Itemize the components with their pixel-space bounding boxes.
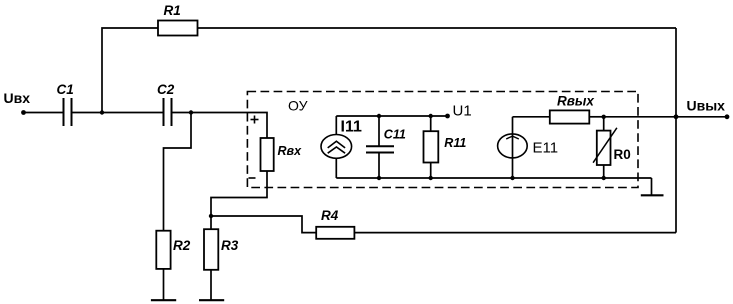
svg-text:Uвх: Uвх	[4, 90, 31, 106]
svg-text:R2: R2	[173, 238, 191, 253]
ground right	[641, 194, 664, 196]
plus terminal mark	[251, 116, 259, 124]
wire R1 to right feedback rail	[198, 27, 677, 29]
wire R3 to ground	[210, 270, 212, 300]
svg-text:R0: R0	[614, 147, 631, 162]
voltage source E11	[498, 134, 528, 158]
svg-text:R1: R1	[164, 3, 181, 18]
svg-text:Uвых: Uвых	[687, 98, 726, 114]
wire R2 to ground	[163, 269, 165, 300]
minus terminal mark	[249, 177, 256, 179]
svg-text:Rвых: Rвых	[557, 94, 594, 109]
current source I11 chevrons	[328, 141, 345, 153]
wire Rvyx to R0 node	[589, 116, 603, 118]
wire node B down jog to R2	[164, 113, 192, 231]
node Uvyx output terminal	[725, 114, 730, 119]
svg-text:C2: C2	[157, 82, 175, 97]
svg-text:I11: I11	[341, 119, 362, 136]
svg-text:Rвх: Rвх	[278, 144, 303, 158]
capacitor C2	[164, 98, 172, 126]
resistor Rvx (input resistance)	[261, 138, 274, 171]
svg-text:R3: R3	[221, 238, 239, 253]
wire node C to R4	[211, 216, 316, 233]
wire C11 top lead	[378, 116, 380, 146]
node C11 bottom junction	[377, 176, 381, 180]
wire R4 to right rail	[354, 232, 676, 234]
resistor R2	[156, 231, 170, 269]
resistor R4	[316, 227, 354, 239]
E11 arrow barbs	[506, 136, 519, 139]
svg-text:C1: C1	[57, 82, 74, 97]
wire E11 vertical through source	[512, 117, 514, 178]
capacitor C1	[64, 98, 72, 126]
wire E11 top to Rvyx	[513, 116, 550, 118]
wire I11 top lead	[335, 116, 337, 135]
node E11 bottom junction	[510, 176, 514, 180]
wire feedback rail down right side	[675, 28, 677, 233]
svg-text:U1: U1	[453, 103, 472, 120]
node R0 top junction	[602, 115, 606, 119]
wire R11 top lead	[430, 116, 432, 131]
op-amp dashed box U1	[247, 92, 638, 188]
svg-text:R11: R11	[444, 136, 466, 150]
wire I11 bottom lead	[335, 158, 337, 178]
wire Rvx bottom to node C	[211, 171, 267, 216]
wire node A to C2	[102, 112, 164, 114]
node output junction with feedback rail	[674, 114, 679, 119]
svg-text:E11: E11	[533, 140, 559, 157]
node C junction	[209, 214, 213, 218]
wire C1 to node A	[72, 112, 103, 114]
wire R11 bottom lead	[430, 163, 432, 179]
resistor R1	[158, 21, 198, 36]
wire input to C1	[24, 112, 64, 114]
node A junction	[100, 110, 104, 114]
svg-text:ОУ: ОУ	[288, 98, 308, 114]
node U1 terminal	[445, 114, 450, 119]
wire node A up to R1	[102, 28, 158, 113]
wire R0 top lead	[603, 117, 605, 131]
wire output line to Uvyx	[604, 116, 727, 118]
node Uvx input terminal	[21, 110, 26, 115]
wire node C to R3	[210, 216, 212, 229]
resistor R0	[597, 131, 611, 165]
wire R0 bottom lead	[603, 165, 605, 178]
ground under R3	[199, 299, 224, 301]
node R11 bottom junction	[429, 176, 433, 180]
capacitor C11	[366, 146, 394, 152]
node R11 top junction	[429, 114, 433, 118]
R0 diagonal stroke	[593, 128, 617, 163]
resistor R3	[204, 229, 218, 270]
resistor R11	[424, 131, 439, 162]
wire node B to op-amp plus input	[191, 113, 267, 139]
current source I11	[321, 135, 352, 159]
wire bottom rail to right ground	[651, 178, 653, 195]
wire internal bottom rail	[336, 177, 651, 179]
node C11 top junction	[377, 114, 381, 118]
node B junction	[189, 110, 193, 114]
wire internal top rail	[336, 115, 447, 117]
wire C11 bottom lead	[378, 153, 380, 179]
svg-text:R4: R4	[321, 208, 339, 223]
resistor Rvyx (output resistance)	[550, 110, 590, 123]
node R0 bottom junction	[602, 176, 606, 180]
wire C2 to node B	[172, 112, 192, 114]
ground under R2	[151, 299, 176, 301]
svg-text:C11: C11	[384, 128, 406, 142]
